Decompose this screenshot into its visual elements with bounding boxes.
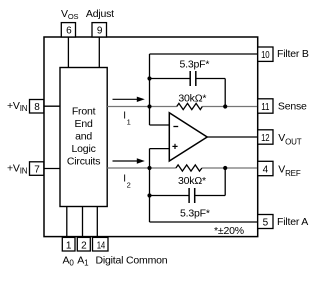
svg-text:12: 12 — [261, 133, 270, 144]
svg-text:and: and — [75, 131, 92, 143]
svg-text:1: 1 — [66, 240, 72, 251]
svg-text:5.3pF*: 5.3pF* — [180, 58, 210, 70]
svg-text:Filter B: Filter B — [277, 48, 309, 60]
svg-text:Digital Common: Digital Common — [96, 255, 168, 267]
svg-text:30kΩ*: 30kΩ* — [178, 93, 206, 105]
svg-text:14: 14 — [97, 240, 106, 251]
svg-text:Front: Front — [72, 106, 96, 118]
svg-text:5: 5 — [263, 217, 269, 228]
svg-text:8: 8 — [34, 102, 40, 113]
svg-text:7: 7 — [34, 164, 40, 175]
svg-text:Adjust: Adjust — [86, 8, 114, 20]
svg-text:9: 9 — [97, 26, 103, 37]
svg-text:End: End — [75, 118, 93, 130]
svg-text:Logic: Logic — [72, 143, 96, 155]
svg-text:30kΩ*: 30kΩ* — [178, 175, 206, 187]
svg-text:*±20%: *±20% — [214, 225, 244, 237]
svg-text:5.3pF*: 5.3pF* — [180, 207, 210, 219]
svg-text:10: 10 — [261, 50, 270, 61]
svg-text:6: 6 — [66, 26, 72, 37]
svg-text:2: 2 — [81, 240, 87, 251]
svg-text:Sense: Sense — [278, 100, 307, 112]
svg-text:Filter A: Filter A — [277, 216, 308, 228]
svg-text:4: 4 — [263, 165, 269, 176]
svg-text:11: 11 — [261, 102, 270, 113]
svg-text:Circuits: Circuits — [67, 156, 100, 168]
